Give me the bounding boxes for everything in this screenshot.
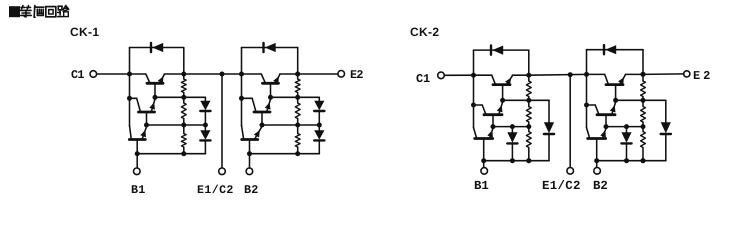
wire: CK2-left collector bus — [473, 50, 475, 128]
C1 terminal (CK-2) — [438, 72, 445, 79]
node CK2-right base-line junction on ladder — [641, 158, 646, 163]
label E2 — [350, 70, 363, 82]
node CK2-right Q2 collector tap — [584, 103, 589, 108]
wire: E1 to C2 link line — [184, 73, 242, 75]
transistor CK1-right Q1 (input) — [242, 138, 258, 141]
label C1 — [416, 73, 430, 85]
node CK1-left Q3 collector tap — [127, 72, 132, 77]
terminal E1/C2 (CK-1) — [219, 168, 226, 175]
resistor CK1-right R3 (input B-E) — [297, 125, 299, 134]
wire: CK2-left emitter bus top — [528, 50, 530, 75]
terminal B1 (CK-2) — [481, 168, 488, 175]
node CK1-right emitter/E-line junction — [295, 72, 300, 77]
diode CK2-right outer (n3 to base line) — [665, 100, 667, 122]
resistor CK1-right R2 (driver B-E) — [297, 97, 299, 103]
header kanji 等 — [21, 6, 25, 8]
wire: CK2-right top C-E link — [587, 49, 644, 51]
transistor CK2-left Q3 (output) — [493, 83, 510, 86]
wire: CK1-left collector bus — [129, 48, 131, 126]
node CK1-left emitter/E-line junction — [181, 72, 186, 77]
C1 terminal (CK-1) — [90, 71, 97, 78]
wire: CK1-left node n3 (Q3 base) — [155, 96, 205, 98]
node CK2-left n3 on ladder — [526, 98, 531, 103]
wire: CK1-left Q3 emitter to E bus — [164, 73, 184, 75]
wire: E1/C2 riser (CK-1) — [221, 74, 223, 168]
node CK1-right n2 on ladder — [295, 123, 300, 128]
transistor CK2-right Q1 (input) — [588, 137, 606, 140]
wire: B2 riser (CK-2) — [596, 161, 598, 168]
diode CK1-right D1 (n3 to n2) — [318, 97, 320, 101]
terminal B2 (CK-1) — [246, 168, 253, 175]
label E1/C2 — [542, 180, 581, 192]
node E1/C2 tap (CK-1) — [220, 72, 225, 77]
wire: CK2-left node n2 (Q2 base) — [493, 126, 529, 128]
wire: CK2-left top C-E link — [474, 49, 529, 51]
wire: CK1-left base line — [137, 153, 205, 155]
diode CK1-left D1 (n3 to n2) — [204, 97, 206, 101]
diode CK2-right free-wheel (E to C) — [603, 45, 605, 54]
wire: CK2-right node n3 (Q3 base) — [616, 99, 643, 101]
diode CK2-left free-wheel (E to C) — [490, 46, 492, 55]
header kanji 価 — [33, 6, 36, 18]
resistor CK1-left R3 (input B-E) — [183, 125, 185, 134]
transistor CK2-left Q2 (driver) — [484, 113, 502, 116]
node CK2-right emitter/E-line junction — [641, 72, 646, 77]
header kanji 路 — [58, 5, 62, 7]
wire: B2 riser (CK-1) — [249, 154, 251, 168]
resistor CK2-right R2 (driver B-E) — [642, 100, 644, 106]
wire: CK1-right top C-E link — [242, 47, 298, 49]
node CK2-right Q3 collector tap — [584, 72, 589, 77]
wire: B1 riser (CK-1) — [136, 154, 138, 168]
diode CK1-left D2 (n2 to base line) — [204, 125, 206, 130]
wire: CK1-right Q3 emitter to E bus — [280, 73, 298, 75]
transistor CK1-left Q3 (output) — [147, 82, 163, 85]
resistor CK1-right R1 (output B-E) — [297, 74, 299, 79]
node CK1-left Q2 collector tap — [127, 96, 132, 101]
node CK1-left n3 on ladder — [181, 95, 186, 100]
transistor CK2-left Q1 (input) — [475, 137, 493, 140]
node CK1-right Q3 collector tap — [239, 72, 244, 77]
diode CK2-right speed-up (n2 to base line) — [626, 127, 628, 133]
resistor CK2-left R3 (input B-E) — [528, 127, 530, 132]
wire: CK1-right node n3 (Q3 base) — [271, 96, 320, 98]
wire: CK2-right n3 to outer diode — [643, 99, 666, 101]
node CK2-right n3 on ladder — [641, 98, 646, 103]
wire: CK2-right collector bus — [586, 50, 588, 128]
wire: CK1-left emitter bus top — [183, 48, 185, 75]
node CK2-left emitter/E-line junction — [526, 73, 531, 78]
label B1 — [131, 185, 146, 197]
node E1/C2 tap (CK-2) — [568, 72, 573, 77]
wire: B1 riser (CK-2) — [483, 161, 485, 168]
wire: CK1-right node n2 (Q2 base) — [262, 124, 319, 126]
label C1 — [71, 70, 84, 82]
diode CK1-right free-wheel (E to C) — [262, 43, 264, 52]
transistor CK1-left Q1 (input) — [129, 138, 145, 141]
resistor CK2-left R2 (driver B-E) — [528, 100, 530, 106]
label CK-1 — [70, 26, 99, 38]
wire: CK1-left top C-E link — [130, 47, 184, 49]
label CK-2 — [410, 26, 439, 38]
terminal B2 (CK-2) — [594, 168, 601, 175]
terminal E2 (CK-2) — [684, 71, 690, 77]
wire: CK2-right emitter bus top — [642, 50, 644, 75]
wire: CK1-right base line — [250, 153, 320, 155]
header kanji 回 — [46, 7, 56, 17]
node CK2-left base-line junction on ladder — [526, 158, 531, 163]
label B2 — [244, 185, 259, 197]
wire: CK2-left node n3 (Q3 base) — [503, 99, 529, 101]
terminal B1 (CK-1) — [134, 168, 141, 175]
wire: CK2-right node n2 (Q2 base) — [606, 126, 643, 128]
wire: CK2-left n3 to outer diode — [529, 99, 549, 101]
node CK1-right base-line junction on ladder — [295, 151, 300, 156]
node CK1-left base-line junction on ladder — [181, 151, 186, 156]
wire: CK2-left Q3 emitter to E bus — [512, 74, 529, 76]
terminal E2 (CK-1) — [338, 71, 345, 78]
transistor CK1-right Q3 (output) — [263, 82, 279, 85]
wire: CK2-left base line — [484, 160, 549, 162]
diode CK1-right D2 (n2 to base line) — [318, 125, 320, 130]
wire: E1 to C2 link line (CK-2) — [529, 73, 587, 76]
wire: E1/C2 riser (CK-2) — [569, 75, 571, 168]
wire: E2 lead (CK-2) — [643, 73, 684, 76]
wire: CK1-right collector bus — [241, 48, 243, 126]
diode CK2-left speed-up (n2 to base line) — [511, 127, 513, 133]
wire: E2 lead (CK-1) — [298, 73, 338, 75]
node CK1-left n2 on ladder — [181, 123, 186, 128]
diode CK2-left outer (n3 to base line) — [548, 100, 550, 122]
resistor CK2-left R1 (output B-E) — [528, 75, 530, 81]
transistor CK1-right Q2 (driver) — [254, 111, 270, 114]
wire: CK1-left node n2 (Q2 base) — [147, 124, 206, 126]
diode CK1-left free-wheel (E to C) — [150, 43, 152, 52]
resistor CK1-left R2 (driver B-E) — [183, 97, 185, 103]
terminal E1/C2 (CK-2) — [567, 168, 574, 175]
resistor CK2-right R3 (input B-E) — [642, 127, 644, 132]
node CK2-left Q3 collector tap — [471, 73, 476, 78]
wire: CK2-right Q3 emitter to E bus — [625, 73, 643, 75]
label E2 — [693, 70, 713, 82]
transistor CK2-right Q2 (driver) — [597, 113, 615, 116]
wire: CK1-right emitter bus top — [297, 48, 299, 75]
node CK1-right Q2 collector tap — [239, 96, 244, 101]
resistor CK2-right R1 (output B-E) — [642, 74, 644, 81]
wire: CK2-right base line — [597, 160, 666, 162]
resistor CK1-left R1 (output B-E) — [183, 74, 185, 79]
node CK1-right n3 on ladder — [295, 95, 300, 100]
node CK2-left Q2 collector tap — [471, 103, 476, 108]
label E1/C2 — [197, 185, 234, 197]
node CK2-left n2 on ladder — [526, 124, 531, 129]
transistor CK2-right Q3 (output) — [606, 83, 623, 86]
header bullet — [9, 6, 20, 17]
label B2 — [593, 180, 608, 192]
node CK2-right n2 on ladder — [641, 124, 646, 129]
label B1 — [474, 180, 489, 192]
transistor CK1-left Q2 (driver) — [139, 111, 155, 114]
